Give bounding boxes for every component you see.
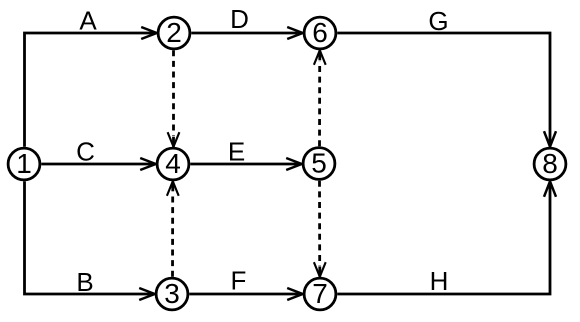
svg-text:H: H xyxy=(430,266,449,296)
svg-text:E: E xyxy=(228,136,245,166)
svg-text:7: 7 xyxy=(312,278,328,309)
wire B (edge 1-3) xyxy=(25,181,155,300)
svg-text:4: 4 xyxy=(165,148,181,179)
wire F (edge 3-7) xyxy=(189,288,302,300)
svg-text:8: 8 xyxy=(542,148,558,179)
node 3 xyxy=(156,278,188,310)
svg-text:3: 3 xyxy=(164,278,180,309)
svg-text:G: G xyxy=(428,6,448,36)
svg-text:B: B xyxy=(76,267,93,297)
wire A (edge 1-2) xyxy=(25,27,157,147)
node 7 xyxy=(304,278,336,310)
dummy arrow 2-4 (dashed) xyxy=(168,50,180,146)
dummy arrow 5-6 (dashed) xyxy=(314,50,326,146)
wire D (edge 2-6) xyxy=(191,27,302,39)
svg-text:F: F xyxy=(231,266,247,296)
svg-text:6: 6 xyxy=(312,17,328,48)
node 1 xyxy=(8,148,40,180)
node 5 xyxy=(303,148,335,180)
svg-text:C: C xyxy=(76,137,95,167)
dummy arrow 3-4 (dashed) xyxy=(167,181,179,276)
node 6 xyxy=(304,17,336,49)
svg-text:5: 5 xyxy=(311,148,327,179)
svg-text:A: A xyxy=(79,5,97,35)
dummy arrow 5-7 (dashed) xyxy=(314,181,326,277)
wire E (edge 4-5) xyxy=(190,158,301,170)
wire H (edge 7-8) xyxy=(337,181,556,294)
wire C (edge 1-4) xyxy=(41,158,155,170)
node 8 xyxy=(534,148,566,180)
svg-text:1: 1 xyxy=(16,148,32,179)
node 2 xyxy=(158,17,190,49)
svg-text:D: D xyxy=(230,4,249,34)
node 4 xyxy=(157,148,189,180)
svg-text:2: 2 xyxy=(166,17,182,48)
wire G (edge 6-8) xyxy=(337,33,556,147)
